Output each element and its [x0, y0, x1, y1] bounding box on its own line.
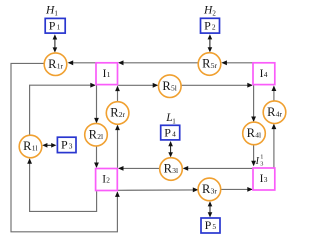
place P5	[201, 218, 220, 233]
svg-text:1l: 1l	[32, 144, 38, 153]
svg-text:5: 5	[212, 222, 216, 231]
transition R3r	[198, 178, 221, 201]
wire R3l left to I2 top-right	[119, 167, 160, 169]
svg-text:3: 3	[69, 142, 73, 151]
interface place I3	[253, 168, 275, 190]
transition R5r	[198, 53, 221, 76]
place P2	[201, 18, 220, 33]
wire I1 top-left to R1r right	[69, 62, 97, 64]
svg-text:3r: 3r	[211, 187, 218, 196]
transition R5l	[159, 75, 182, 98]
wire double arrow between R1l and P3	[45, 144, 55, 146]
place P4	[161, 125, 180, 140]
wire I3 top-left to R3l right	[184, 167, 253, 169]
svg-text:1: 1	[172, 118, 176, 126]
svg-text:5l: 5l	[171, 83, 177, 92]
interface place I2	[96, 169, 118, 191]
transition R1r	[44, 53, 67, 76]
svg-text:2: 2	[212, 22, 216, 31]
svg-text:P: P	[204, 18, 211, 32]
transition R4r	[263, 101, 286, 124]
wire double arrow between P1 and R1r	[54, 37, 56, 49]
svg-text:2: 2	[212, 9, 216, 17]
svg-text:P: P	[164, 125, 171, 139]
wire R2r top up to I1 bottom-right	[117, 87, 119, 102]
svg-text:1r: 1r	[57, 61, 64, 70]
svg-text:1: 1	[54, 9, 58, 17]
wire inner loop from I2 bottom-left down and across up into R1l bottom	[30, 159, 97, 211]
svg-text:1: 1	[260, 153, 263, 160]
transition R1l	[19, 135, 42, 158]
svg-text:2l: 2l	[97, 132, 103, 141]
svg-text:P: P	[205, 218, 212, 232]
svg-text:1: 1	[57, 22, 61, 31]
interface place I4	[253, 63, 275, 85]
wire double arrow between P4 and R3l	[170, 144, 172, 156]
transition R4l	[243, 122, 266, 145]
wire I4 top-left to R5r right	[223, 62, 254, 64]
wire R4r top up to I4 bottom-right	[273, 86, 275, 101]
wire I2 bottom-right to R3r left	[117, 189, 197, 191]
wire from R1l top up and right into I1 bottom-left	[30, 85, 95, 135]
svg-text:3: 3	[260, 160, 263, 167]
transition R3l	[160, 158, 183, 181]
wire I3 top-right up to R4r bottom	[273, 125, 275, 168]
transition R2l	[85, 123, 108, 146]
svg-text:1: 1	[107, 70, 111, 79]
svg-text:I: I	[255, 156, 260, 167]
svg-text:4r: 4r	[276, 109, 283, 118]
wire R2l bottom down to I2 top-left	[96, 146, 98, 167]
svg-text:2r: 2r	[119, 110, 126, 119]
wire I1 bottom-right to R5l left	[118, 84, 158, 86]
wire outer loop from R1r left side down left edge and across bottom up into I2 bottom-right	[11, 63, 117, 231]
wire double arrow between P2 and R5r	[209, 37, 211, 49]
interface place I1	[96, 63, 118, 85]
wire I4 bottom-left down to R4l top	[253, 85, 255, 121]
wire R4l bottom down to I3 top-left	[253, 145, 255, 166]
wire I2 top-right up to R2r bottom	[117, 126, 119, 169]
svg-text:P: P	[61, 138, 68, 152]
wire R5l right to I4 bottom-left	[181, 84, 252, 86]
wire I1 bottom-left down to R2l top	[96, 85, 98, 122]
wire R3r right to I3 left edge	[221, 188, 252, 190]
wire R5r left to I1 top-right	[119, 62, 198, 64]
place P3	[57, 137, 76, 152]
svg-text:2: 2	[106, 176, 110, 185]
svg-text:4: 4	[264, 70, 268, 79]
svg-text:4l: 4l	[255, 131, 261, 140]
svg-text:3: 3	[264, 175, 268, 184]
wire double arrow between R3r and P5	[209, 204, 211, 215]
place P1	[45, 18, 65, 33]
transition R2r	[106, 102, 129, 125]
svg-text:P: P	[49, 18, 56, 32]
svg-text:4: 4	[172, 129, 176, 138]
svg-text:5r: 5r	[211, 61, 218, 70]
svg-text:3l: 3l	[172, 166, 178, 175]
